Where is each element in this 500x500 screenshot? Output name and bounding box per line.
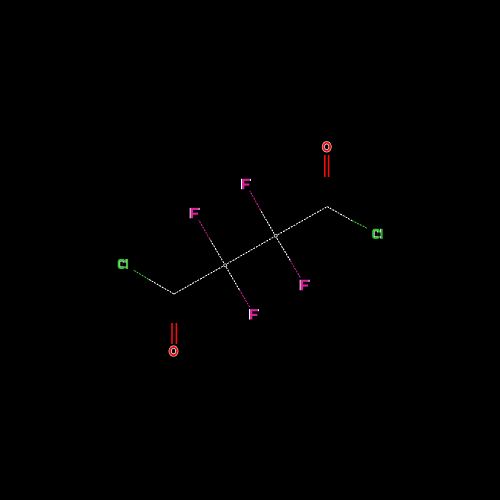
bond C2-F4 fluorine half xyxy=(290,260,301,278)
atom label Cl1 (left) xyxy=(119,259,128,269)
double bond C4=O2 oxygen half (red pair) xyxy=(171,323,173,344)
bond C3-F1 carbon half xyxy=(210,239,224,263)
double bond C1=O1 oxygen half (red pair) xyxy=(324,155,326,177)
bond C2-F4 carbon half xyxy=(277,238,290,260)
bond C2-C1 xyxy=(278,207,327,235)
bond C3-F2 fluorine half xyxy=(239,290,250,308)
bond C4-C3 xyxy=(174,266,223,294)
atom label O1 (top) xyxy=(322,142,331,152)
carbon vertex ring C2 xyxy=(274,234,277,237)
atom label F3 (upper middle) xyxy=(241,179,251,189)
atom label Cl2 (right) xyxy=(373,229,382,239)
bond C2-F3 fluorine half xyxy=(250,191,261,210)
bond C3-F2 carbon half xyxy=(226,267,239,290)
bond Cl1-C4 chlorine half xyxy=(133,270,148,279)
atom label F1 (upper left) xyxy=(190,208,200,218)
bond C3-C2 xyxy=(227,237,273,263)
bond Cl1-C4 carbon half (wire) xyxy=(149,279,175,294)
atom label O2 (bottom) xyxy=(169,346,178,356)
atom label F2 (lower middle) xyxy=(249,309,259,319)
bond C1-Cl2 carbon half xyxy=(327,207,352,221)
bond C2-F3 carbon half xyxy=(261,210,275,234)
bond C1-Cl2 chlorine half xyxy=(352,221,367,229)
bond C3-F1 fluorine half xyxy=(199,220,210,239)
atom label F4 (right) xyxy=(300,280,310,290)
carbon vertex ring C3 xyxy=(224,264,227,267)
